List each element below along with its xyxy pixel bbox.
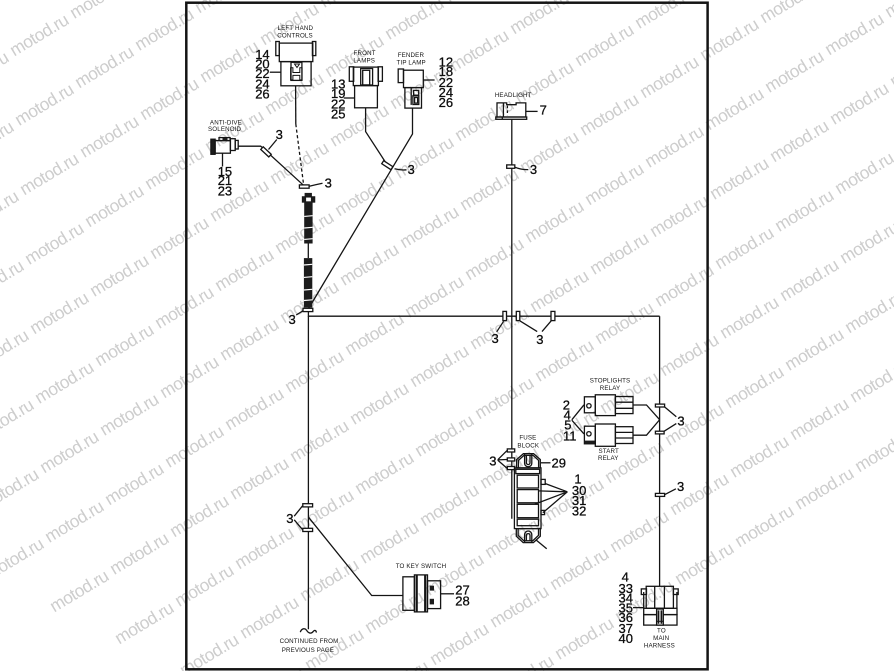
svg-text:motod.ru: motod.ru (0, 395, 37, 445)
svg-text:32: 32 (572, 504, 586, 519)
label FRONT LAMPS (353, 50, 375, 65)
svg-text:motod.ru: motod.ru (41, 496, 107, 546)
svg-text:motod.ru: motod.ru (401, 271, 467, 321)
svg-text:motod.ru: motod.ru (396, 202, 462, 252)
inline connector on left drop (lower) (303, 528, 313, 531)
inline connector on bus (third) (551, 311, 555, 320)
svg-text:motod.ru: motod.ru (886, 41, 894, 91)
svg-text:motod.ru: motod.ru (761, 46, 827, 96)
svg-text:motod.ru: motod.ru (696, 14, 762, 64)
svg-text:3: 3 (677, 413, 684, 428)
harness sleeve collar (303, 197, 315, 202)
svg-text:motod.ru: motod.ru (671, 538, 737, 588)
svg-text:BLOCK: BLOCK (517, 443, 539, 450)
svg-text:motod.ru: motod.ru (831, 148, 894, 198)
svg-text:motod.ru: motod.ru (726, 431, 792, 481)
svg-text:motod.ru: motod.ru (446, 25, 512, 75)
inline connector below sleeve (303, 308, 313, 311)
fuse block top cap (517, 454, 541, 468)
svg-text:motod.ru: motod.ru (231, 523, 297, 573)
svg-text:motod.ru: motod.ru (0, 117, 17, 167)
harness sleeve segment 1 (striped) (304, 202, 312, 244)
svg-text:motod.ru: motod.ru (581, 159, 647, 209)
svg-text:motod.ru: motod.ru (566, 0, 632, 1)
svg-text:motod.ru: motod.ru (776, 255, 842, 305)
relay item numbers 2 4 5 11 (563, 397, 577, 443)
svg-text:motod.ru: motod.ru (421, 549, 487, 599)
svg-text:motod.ru: motod.ru (506, 0, 572, 38)
svg-text:motod.ru: motod.ru (591, 298, 657, 348)
svg-text:FRONT: FRONT (354, 50, 376, 57)
svg-text:LEFT HAND: LEFT HAND (277, 25, 313, 32)
svg-text:FENDER: FENDER (398, 52, 425, 59)
svg-text:motod.ru: motod.ru (206, 175, 272, 225)
svg-text:motod.ru: motod.ru (596, 367, 662, 417)
border frame (186, 3, 707, 670)
svg-text:motod.ru: motod.ru (486, 581, 552, 631)
svg-text:motod.ru: motod.ru (821, 9, 887, 59)
label CONTINUED FROM PREVIOUS PAGE (280, 638, 339, 654)
inline connector at junction node A (299, 185, 309, 188)
main harness numbers 4 33 34 35 36 37 40 (619, 569, 633, 646)
svg-text:3: 3 (325, 176, 332, 191)
svg-text:motod.ru: motod.ru (491, 651, 557, 671)
leader from 22 to connector (270, 71, 281, 73)
svg-text:motod.ru: motod.ru (846, 356, 894, 406)
svg-text:motod.ru: motod.ru (791, 463, 857, 513)
svg-text:motod.ru: motod.ru (826, 78, 892, 128)
wire between sleeve segments (307, 244, 309, 259)
svg-text:3: 3 (289, 312, 296, 327)
harness sleeve upper cap (305, 193, 312, 197)
svg-text:motod.ru: motod.ru (631, 0, 697, 33)
svg-text:3: 3 (492, 331, 499, 346)
svg-text:STOPLIGHTS: STOPLIGHTS (590, 378, 631, 385)
svg-text:motod.ru: motod.ru (156, 352, 222, 402)
svg-text:motod.ru: motod.ru (286, 416, 352, 466)
svg-text:3: 3 (530, 162, 537, 177)
wire main bus horizontal (308, 312, 659, 317)
svg-text:motod.ru: motod.ru (106, 528, 172, 578)
label HEADLIGHT (495, 92, 532, 99)
svg-text:motod.ru: motod.ru (111, 598, 177, 648)
harness sleeve segment 2 (striped) (304, 258, 312, 307)
connector main harness (641, 586, 678, 625)
svg-text:26: 26 (255, 87, 269, 102)
svg-text:motod.ru: motod.ru (0, 325, 32, 375)
inline connector on bus (left of headlight drop) (503, 311, 507, 320)
svg-text:motod.ru: motod.ru (0, 256, 27, 306)
svg-text:29: 29 (552, 456, 566, 471)
svg-text:motod.ru: motod.ru (666, 469, 732, 519)
svg-text:motod.ru: motod.ru (406, 341, 472, 391)
break squiggle (continued from previous page) (300, 629, 316, 633)
svg-text:motod.ru: motod.ru (731, 501, 797, 551)
svg-text:motod.ru: motod.ru (31, 357, 97, 407)
svg-text:motod.ru: motod.ru (26, 288, 92, 338)
wire to key switch (309, 517, 403, 595)
svg-text:3: 3 (536, 332, 543, 347)
svg-text:motod.ru: motod.ru (661, 399, 727, 449)
leader to 3 (solenoid wire) (269, 140, 277, 150)
svg-text:motod.ru: motod.ru (511, 57, 577, 107)
svg-text:motod.ru: motod.ru (551, 613, 617, 663)
leaders to 3 (bus pair connectors) (520, 321, 551, 332)
label FENDER TIP LAMP (397, 52, 426, 67)
svg-text:HARNESS: HARNESS (644, 642, 675, 649)
wire headlight drop (511, 120, 513, 317)
leader to 3 (bus left connector) (497, 321, 504, 332)
svg-text:motod.ru: motod.ru (521, 196, 587, 246)
svg-text:motod.ru: motod.ru (721, 362, 787, 412)
left-hand-controls pin numbers 14 20 22 24 26 (255, 47, 269, 102)
svg-text:3: 3 (677, 479, 684, 494)
svg-text:motod.ru: motod.ru (101, 459, 167, 509)
svg-text:motod.ru: motod.ru (216, 314, 282, 364)
svg-text:motod.ru: motod.ru (151, 282, 217, 332)
svg-text:motod.ru: motod.ru (226, 453, 292, 503)
svg-text:motod.ru: motod.ru (786, 394, 852, 444)
label TO KEY SWITCH (396, 563, 447, 570)
svg-text:motod.ru: motod.ru (606, 506, 672, 556)
svg-text:motod.ru: motod.ru (836, 217, 894, 267)
wire right branch vertical (659, 316, 661, 586)
svg-text:motod.ru: motod.ru (91, 320, 157, 370)
leaders to 3 (branch pair) (664, 407, 676, 431)
connector left-hand-controls body (276, 42, 316, 86)
wire stoplights relay to branch (633, 405, 659, 419)
leader from 35 to main harness connector (633, 607, 644, 609)
svg-text:PREVIOUS PAGE: PREVIOUS PAGE (282, 647, 334, 654)
leader to 29 (541, 462, 551, 464)
leader to 3 (front/fender junction) (395, 169, 407, 170)
svg-text:28: 28 (455, 594, 469, 609)
svg-text:motod.ru: motod.ru (0, 47, 12, 97)
leaders to 3 (fuse connectors) (498, 451, 507, 469)
svg-text:RELAY: RELAY (600, 385, 621, 392)
svg-text:motod.ru: motod.ru (296, 555, 362, 605)
connector front-lamps body (349, 67, 382, 108)
wire left drop to key switch / bottom (307, 316, 309, 629)
wire fuse drop below bus (511, 316, 513, 519)
svg-text:motod.ru: motod.ru (96, 389, 162, 439)
label FUSE BLOCK (517, 434, 539, 449)
leaders from numbers to relays (572, 405, 584, 434)
solenoid item numbers 15 21 23 (218, 164, 232, 199)
svg-text:motod.ru: motod.ru (211, 245, 277, 295)
leader to 3 (headlight drop) (515, 167, 528, 169)
svg-text:CONTINUED FROM: CONTINUED FROM (280, 638, 339, 645)
inline connector on branch (lower) (655, 431, 664, 434)
svg-text:motod.ru: motod.ru (271, 207, 337, 257)
inline connector on left drop (upper) (303, 504, 313, 507)
front-lamps pin numbers 13 19 22 25 (331, 76, 345, 121)
fender-tip pin numbers 12 18 22 24 26 (439, 55, 453, 110)
svg-text:23: 23 (218, 183, 232, 198)
svg-text:motod.ru: motod.ru (346, 378, 412, 428)
svg-text:MAIN: MAIN (653, 635, 669, 642)
leaders to 3 (left drop pair) (294, 506, 302, 530)
svg-text:motod.ru: motod.ru (576, 89, 642, 139)
svg-text:motod.ru: motod.ru (196, 36, 262, 86)
svg-text:motod.ru: motod.ru (161, 421, 227, 471)
svg-text:motod.ru: motod.ru (66, 0, 132, 23)
svg-text:LAMPS: LAMPS (353, 58, 375, 65)
wire fender-tip down to junction (309, 108, 413, 308)
svg-text:3: 3 (276, 127, 283, 142)
svg-text:26: 26 (439, 95, 453, 110)
label ANTI-DIVE SOLENOID (208, 120, 242, 133)
svg-text:TIP LAMP: TIP LAMP (397, 60, 426, 67)
svg-text:motod.ru: motod.ru (781, 324, 847, 374)
svg-text:motod.ru: motod.ru (636, 52, 702, 102)
svg-text:motod.ru: motod.ru (716, 292, 782, 342)
svg-text:motod.ru: motod.ru (391, 132, 457, 182)
label STOPLIGHTS RELAY (590, 378, 631, 393)
svg-text:motod.ru: motod.ru (711, 223, 777, 273)
svg-text:motod.ru: motod.ru (586, 228, 652, 278)
svg-text:START: START (598, 448, 619, 455)
svg-text:motod.ru: motod.ru (766, 116, 832, 166)
fuse block bottom cap (516, 529, 540, 543)
svg-text:motod.ru: motod.ru (771, 185, 837, 235)
inline connector on bus (right of headlight drop) (516, 311, 520, 320)
leader from fuse block bottom (536, 540, 547, 549)
svg-text:SOLENOID: SOLENOID (208, 126, 242, 133)
svg-text:motod.ru: motod.ru (76, 111, 142, 161)
svg-text:25: 25 (331, 107, 345, 122)
svg-text:motod.ru: motod.ru (526, 266, 592, 316)
svg-text:motod.ru: motod.ru (381, 0, 447, 44)
svg-text:7: 7 (540, 103, 547, 118)
svg-text:motod.ru: motod.ru (881, 0, 894, 22)
svg-text:motod.ru: motod.ru (21, 218, 87, 268)
svg-text:3: 3 (408, 162, 415, 177)
svg-text:TO KEY SWITCH: TO KEY SWITCH (396, 563, 447, 570)
svg-text:motod.ru: motod.ru (756, 0, 822, 27)
fuse item numbers 1 30 31 32 (572, 471, 586, 518)
svg-text:motod.ru: motod.ru (171, 560, 237, 610)
svg-text:motod.ru: motod.ru (701, 84, 767, 134)
svg-text:RELAY: RELAY (598, 455, 619, 462)
inline connector on headlight drop (507, 165, 515, 168)
svg-text:40: 40 (619, 631, 633, 646)
svg-text:motod.ru: motod.ru (841, 287, 894, 337)
wire start relay to branch (633, 420, 659, 435)
svg-text:motod.ru: motod.ru (221, 384, 287, 434)
leader headlight to 7 (526, 110, 538, 112)
leader from 19 to connector (344, 97, 355, 99)
leaders from fuse block to item numbers (535, 484, 568, 513)
connector fender-tip-lamp body (398, 69, 423, 108)
svg-text:3: 3 (489, 454, 496, 469)
svg-text:11: 11 (563, 429, 577, 444)
svg-text:motod.ru: motod.ru (571, 20, 637, 70)
svg-text:HEADLIGHT: HEADLIGHT (495, 92, 532, 99)
svg-text:3: 3 (286, 511, 293, 526)
svg-text:motod.ru: motod.ru (411, 410, 477, 460)
svg-text:FUSE: FUSE (519, 434, 536, 441)
svg-text:motod.ru: motod.ru (6, 10, 72, 60)
label START RELAY (598, 448, 619, 462)
svg-text:motod.ru: motod.ru (0, 534, 47, 584)
key switch numbers 27 28 (455, 583, 469, 609)
svg-text:motod.ru: motod.ru (656, 330, 722, 380)
svg-text:motod.ru: motod.ru (86, 250, 152, 300)
wire front-lamps down to junction (366, 108, 388, 165)
wire solenoid to its numbers (222, 153, 224, 166)
svg-text:motod.ru: motod.ru (141, 143, 207, 193)
svg-text:motod.ru: motod.ru (356, 517, 422, 567)
inline connector on front/fender junction (angled) (382, 161, 393, 170)
svg-text:motod.ru: motod.ru (281, 346, 347, 396)
svg-text:motod.ru: motod.ru (136, 74, 202, 124)
svg-text:motod.ru: motod.ru (0, 186, 22, 236)
wire left-hand-controls down (solid then dashed) (295, 86, 297, 124)
svg-text:motod.ru: motod.ru (46, 566, 112, 616)
svg-text:motod.ru: motod.ru (81, 181, 147, 231)
inline connector on branch (upper) (655, 404, 664, 407)
svg-text:TO: TO (657, 628, 666, 635)
leader to 3 (branch third) (665, 489, 676, 495)
svg-text:motod.ru: motod.ru (0, 0, 7, 28)
svg-text:motod.ru: motod.ru (351, 448, 417, 498)
svg-text:motod.ru: motod.ru (646, 191, 712, 241)
relay start (584, 424, 633, 446)
leader to 3 (below sleeve) (296, 311, 303, 315)
svg-text:motod.ru: motod.ru (11, 79, 77, 129)
svg-text:motod.ru: motod.ru (36, 427, 102, 477)
svg-text:motod.ru: motod.ru (0, 464, 42, 514)
leader to 3 (junction node A) (309, 183, 322, 186)
svg-text:motod.ru: motod.ru (641, 121, 707, 171)
svg-text:motod.ru: motod.ru (546, 544, 612, 594)
label TO MAIN HARNESS (644, 628, 675, 650)
svg-text:motod.ru: motod.ru (426, 619, 492, 669)
wire solenoid to junction (238, 146, 303, 185)
svg-text:motod.ru: motod.ru (461, 234, 527, 284)
connector key switch (403, 575, 441, 612)
inline connectors left of fuse block (three) (507, 449, 514, 470)
inline connector on solenoid wire (angled) (261, 147, 272, 157)
svg-text:motod.ru: motod.ru (851, 426, 894, 476)
inline connector on branch (third) (655, 493, 664, 496)
svg-text:motod.ru: motod.ru (236, 592, 302, 642)
fuse block stack (514, 468, 545, 529)
svg-text:motod.ru: motod.ru (471, 373, 537, 423)
svg-text:motod.ru: motod.ru (416, 480, 482, 530)
leader from 22 to fender connector (423, 79, 434, 81)
leader key switch to numbers (441, 593, 454, 595)
svg-text:motod.ru: motod.ru (166, 491, 232, 541)
connector headlight body (496, 103, 527, 119)
svg-text:motod.ru: motod.ru (71, 42, 137, 92)
label LEFT HAND CONTROLS (277, 25, 313, 40)
component anti-dive solenoid (211, 138, 238, 155)
svg-text:motod.ru: motod.ru (706, 153, 772, 203)
relay stoplights (584, 395, 633, 416)
svg-text:motod.ru: motod.ru (16, 149, 82, 199)
svg-text:motod.ru: motod.ru (146, 213, 212, 263)
svg-text:CONTROLS: CONTROLS (277, 33, 313, 40)
